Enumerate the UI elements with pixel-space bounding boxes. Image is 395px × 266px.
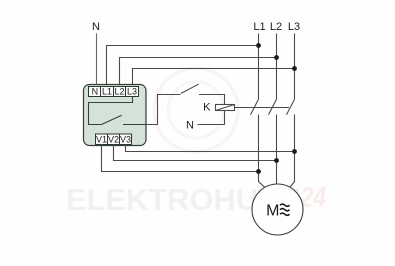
relay U1 voltage monitor body xyxy=(84,85,147,146)
svg-text:N: N xyxy=(92,87,99,97)
wire relay output to switch xyxy=(146,95,181,125)
wire L2 vertical lower to motor xyxy=(276,115,278,185)
junction V2/L2 xyxy=(274,158,279,163)
wire L1 vertical upper xyxy=(258,34,260,100)
svg-text:L1: L1 xyxy=(253,21,265,33)
wire L3 vertical upper xyxy=(294,34,296,100)
terminal V1 xyxy=(96,134,108,145)
svg-text:M: M xyxy=(266,203,279,220)
svg-text:L1: L1 xyxy=(102,87,112,97)
wire L2 feed to relay terminal L2 xyxy=(120,58,277,87)
switch S1 blade (open) xyxy=(181,84,199,93)
junction L2 tap xyxy=(274,55,279,60)
svg-text:N: N xyxy=(92,21,100,33)
svg-text:V1: V1 xyxy=(96,135,107,145)
wire L3 vertical lower to motor xyxy=(290,115,295,188)
wire relay internal output xyxy=(123,124,146,126)
svg-text:V2: V2 xyxy=(108,135,119,145)
linkage coil K to contacts xyxy=(235,107,290,109)
wire V1 to L1 xyxy=(102,145,259,172)
svg-text:24: 24 xyxy=(300,182,326,214)
wire relay internal from terminal L3 xyxy=(89,97,133,125)
wire N drop to relay terminal xyxy=(96,34,98,87)
contact K3 on L3 xyxy=(287,99,295,114)
motor M1 xyxy=(252,184,303,235)
junction L1 tap xyxy=(256,43,261,48)
svg-text:N: N xyxy=(186,120,194,132)
terminal V3 xyxy=(120,134,132,145)
relay output contact blade xyxy=(102,115,122,124)
terminal V2 xyxy=(108,134,120,145)
svg-text:L2: L2 xyxy=(270,21,282,33)
wire V2 to L2 xyxy=(114,145,277,161)
svg-text:V3: V3 xyxy=(120,135,131,145)
coil K xyxy=(216,105,235,111)
svg-text:L3: L3 xyxy=(127,87,137,97)
contact K1 on L1 xyxy=(251,99,259,114)
svg-text:L2: L2 xyxy=(114,87,124,97)
contact K2 on L2 xyxy=(269,99,277,114)
terminal N xyxy=(89,87,101,97)
terminal L3 xyxy=(126,87,139,97)
wire L1 vertical lower to motor xyxy=(259,115,266,188)
terminal L1 xyxy=(101,87,114,97)
svg-text:L3: L3 xyxy=(288,21,300,33)
wire V3 to L3 xyxy=(126,145,295,152)
junction V1/L1 xyxy=(256,169,261,174)
junction L3 tap xyxy=(292,66,297,71)
junction V3/L3 xyxy=(292,149,297,154)
wire switch to coil K xyxy=(199,95,225,105)
wire L1 feed to relay terminal L1 xyxy=(107,46,259,87)
wire L3 feed to relay terminal L3 xyxy=(133,69,295,87)
wire coil K to N xyxy=(198,111,225,125)
terminal L2 xyxy=(114,87,126,97)
svg-text:K: K xyxy=(203,102,211,114)
wire L2 vertical upper xyxy=(276,34,278,100)
watermark (decorative) xyxy=(66,68,326,217)
